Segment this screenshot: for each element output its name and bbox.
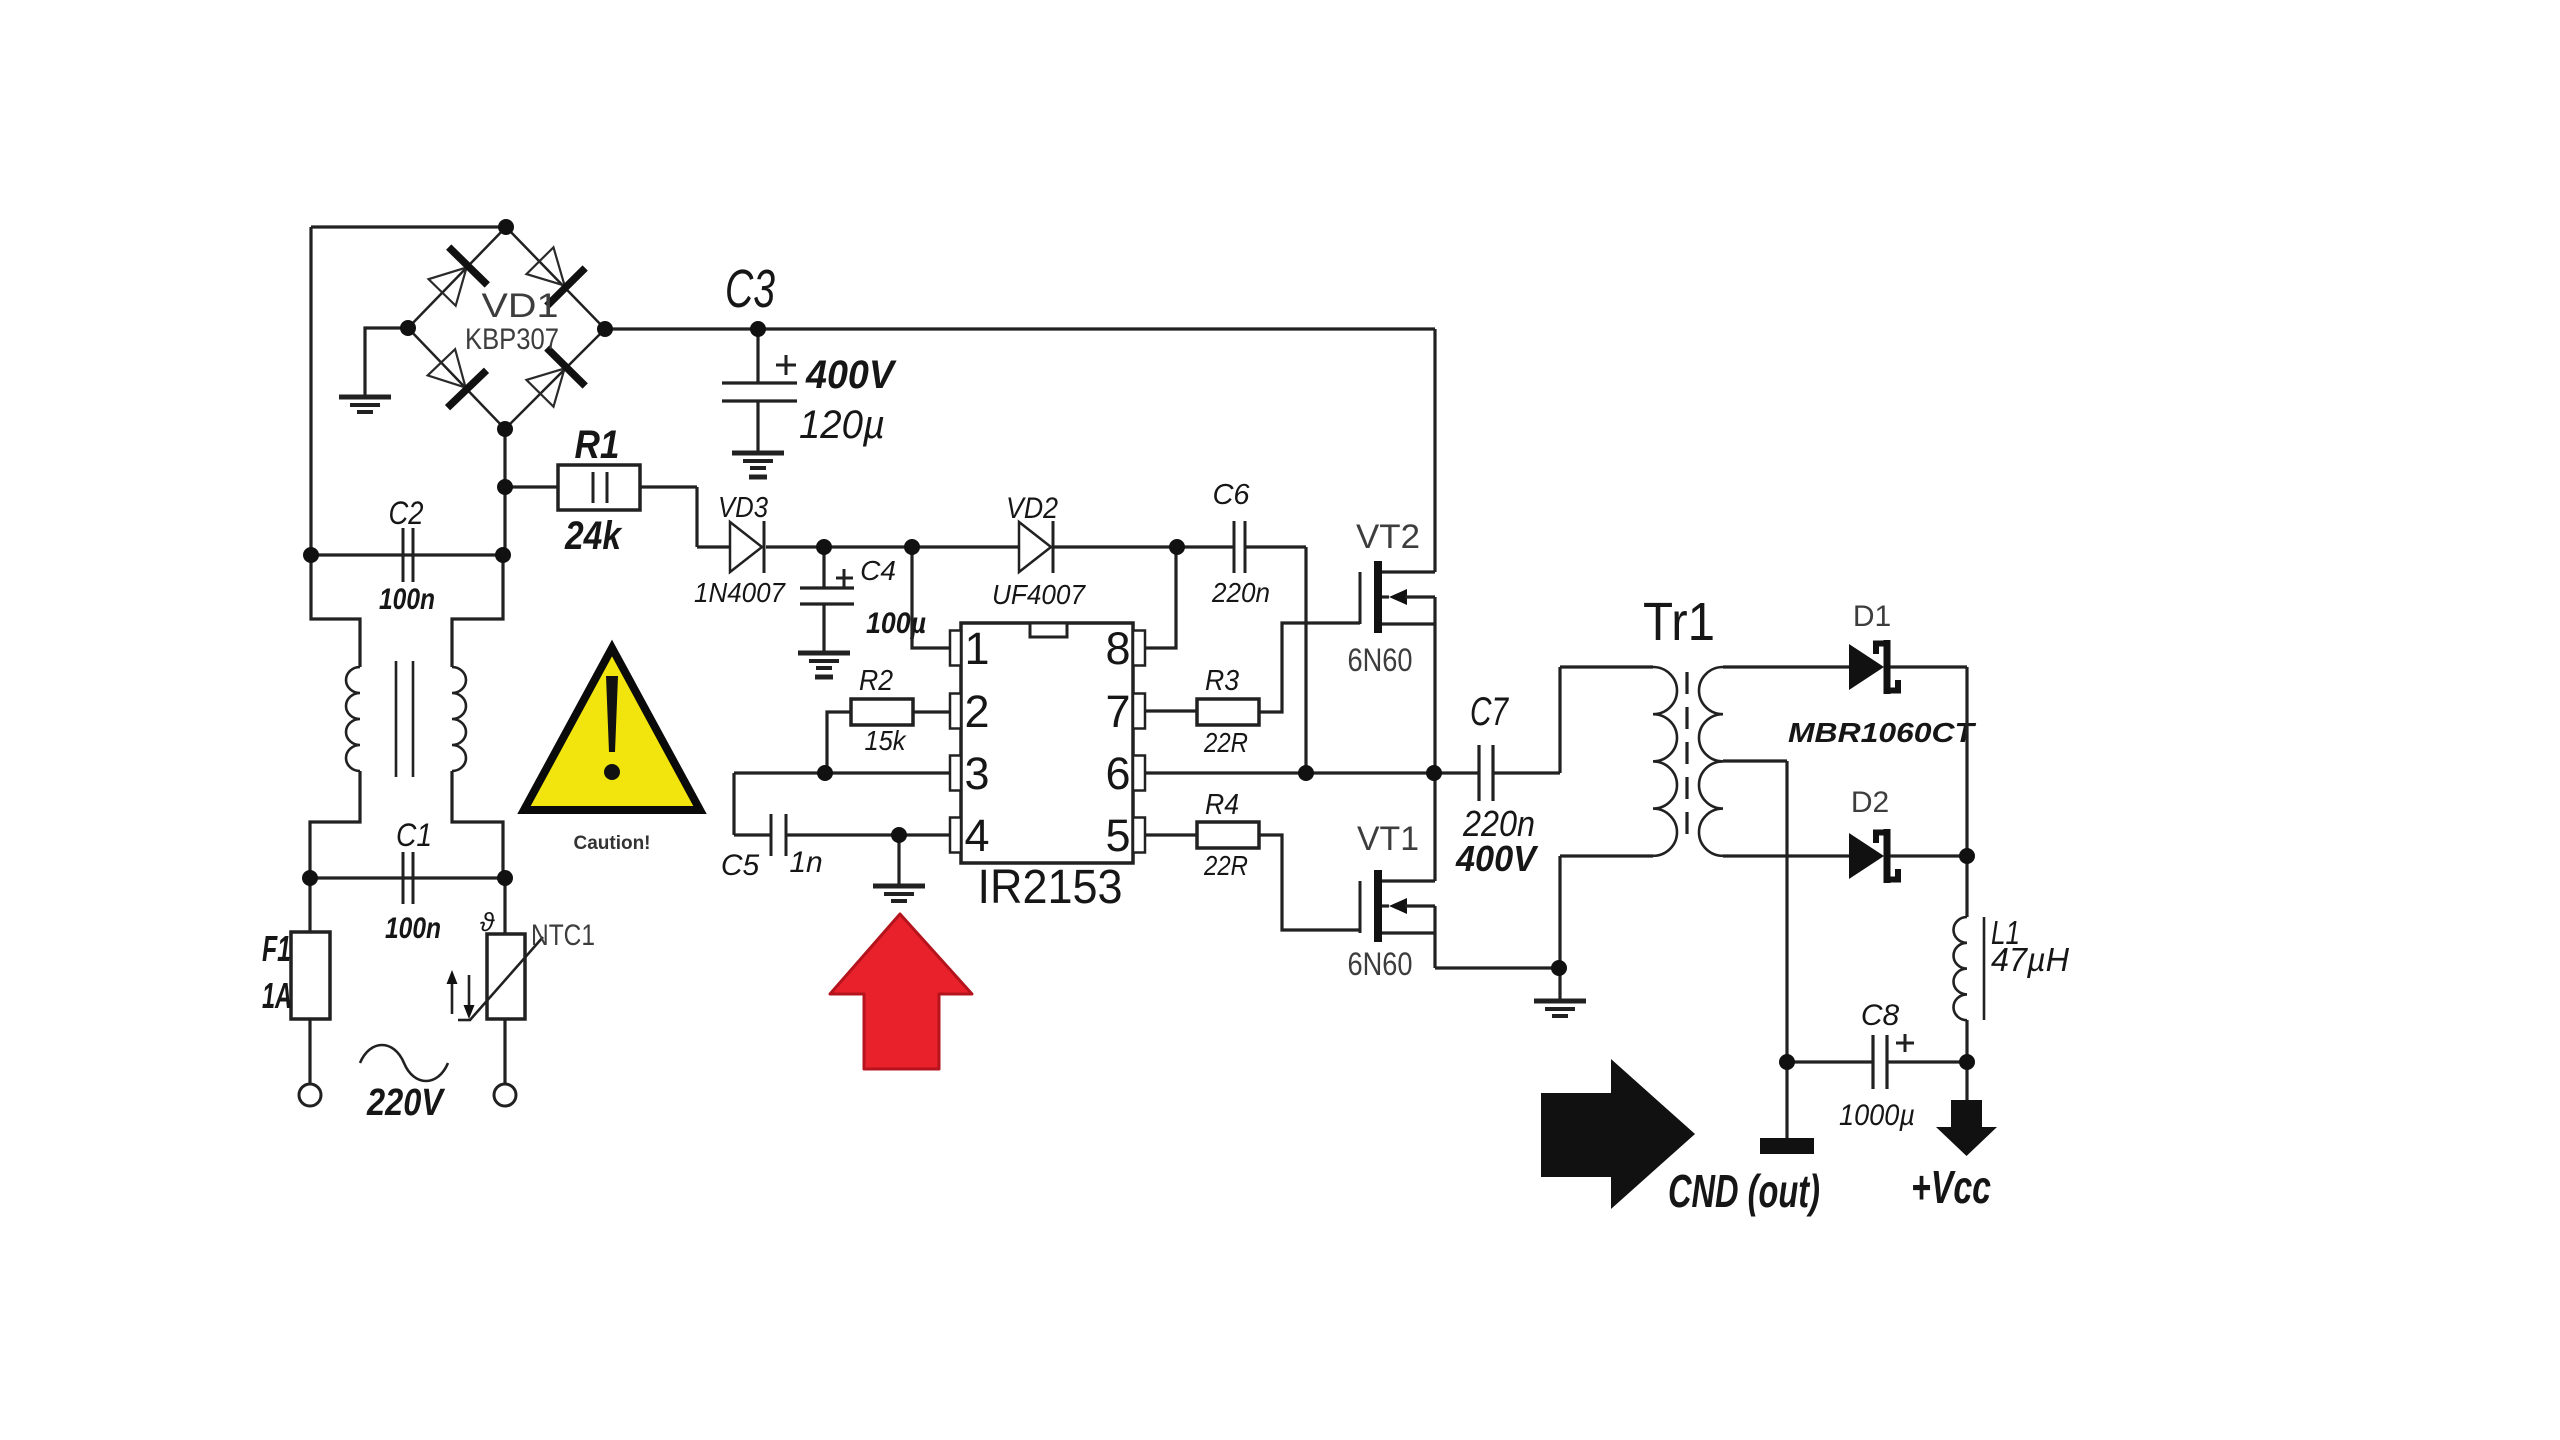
svg-text:220n: 220n [1211,577,1270,608]
svg-text:+Vcc: +Vcc [1911,1161,1991,1213]
svg-text:R2: R2 [859,665,893,697]
svg-text:Caution!: Caution! [573,833,650,854]
svg-text:6N60: 6N60 [1348,642,1413,678]
svg-text:C3: C3 [725,259,775,319]
svg-text:F1: F1 [262,928,291,969]
svg-text:4: 4 [964,810,989,861]
svg-text:120µ: 120µ [799,403,885,447]
svg-text:R4: R4 [1205,789,1239,821]
svg-text:R1: R1 [575,423,620,467]
svg-text:KBP307: KBP307 [465,323,559,356]
svg-text:5: 5 [1105,810,1130,861]
svg-text:VT1: VT1 [1357,820,1419,858]
svg-text:400V: 400V [1455,838,1539,879]
svg-text:VD3: VD3 [718,492,768,524]
svg-text:C1: C1 [396,817,432,853]
svg-text:100n: 100n [385,912,441,945]
svg-text:1n: 1n [789,846,822,879]
svg-text:VD1: VD1 [482,287,559,325]
svg-text:220V: 220V [366,1082,445,1124]
svg-text:D2: D2 [1851,786,1889,819]
svg-text:R3: R3 [1205,665,1239,697]
svg-text:6N60: 6N60 [1348,946,1413,982]
svg-text:100n: 100n [379,583,435,616]
svg-text:D1: D1 [1853,600,1891,633]
svg-text:Tr1: Tr1 [1643,592,1715,652]
svg-text:2: 2 [964,686,989,737]
svg-text:C4: C4 [860,555,896,586]
svg-text:47µH: 47µH [1991,941,2069,978]
svg-text:1: 1 [964,623,989,674]
svg-text:VT2: VT2 [1356,518,1420,556]
svg-text:MBR1060CT: MBR1060CT [1788,717,1977,748]
svg-text:IR2153: IR2153 [978,861,1123,914]
svg-text:1N4007: 1N4007 [694,577,786,608]
svg-text:C5: C5 [721,849,760,882]
svg-text:22R: 22R [1203,850,1248,881]
svg-text:22R: 22R [1203,727,1248,758]
svg-text:15k: 15k [865,725,908,756]
svg-text:8: 8 [1105,623,1130,674]
svg-text:6: 6 [1105,748,1130,799]
svg-text:ϑ: ϑ [480,907,495,937]
svg-text:C8: C8 [1861,999,1900,1032]
svg-text:C7: C7 [1470,690,1509,734]
svg-text:1000µ: 1000µ [1839,1099,1915,1132]
svg-text:7: 7 [1105,686,1130,737]
svg-text:UF4007: UF4007 [992,579,1086,610]
svg-text:VD2: VD2 [1006,492,1058,525]
svg-text:1A: 1A [262,975,292,1016]
svg-text:400V: 400V [805,353,897,397]
svg-text:NTC1: NTC1 [531,919,595,952]
svg-text:CND (out): CND (out) [1668,1165,1820,1217]
svg-text:C6: C6 [1212,479,1250,511]
svg-text:C2: C2 [389,495,424,531]
svg-text:24k: 24k [564,514,622,558]
svg-text:3: 3 [964,748,989,799]
svg-text:100µ: 100µ [866,607,926,640]
